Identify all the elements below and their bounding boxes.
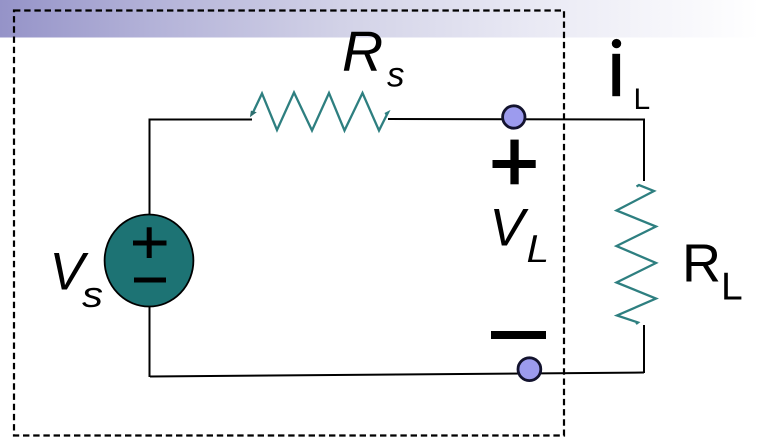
svg-text:s: s [387, 56, 405, 95]
svg-text:V: V [490, 199, 530, 258]
svg-text:L: L [634, 83, 651, 116]
svg-text:R: R [342, 20, 383, 84]
svg-text:R: R [682, 234, 721, 294]
svg-text:s: s [82, 274, 103, 315]
svg-text:L: L [721, 266, 743, 309]
